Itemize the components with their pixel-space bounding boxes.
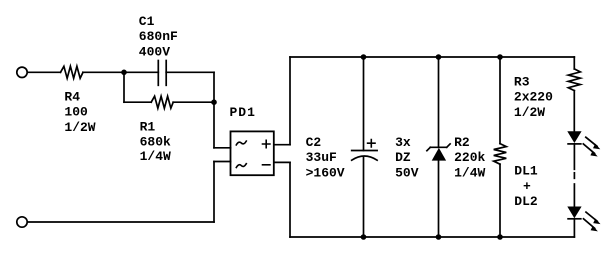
wire	[166, 71, 214, 73]
wire	[499, 57, 501, 144]
bridge PD1 minus symbol	[263, 164, 270, 166]
svg-text:1/2W: 1/2W	[514, 105, 545, 120]
svg-text:R2: R2	[454, 135, 470, 150]
wire	[124, 101, 151, 103]
wire	[573, 184, 575, 207]
node C junction	[361, 54, 367, 60]
svg-text:680k: 680k	[140, 134, 171, 149]
svg-text:C1: C1	[139, 14, 155, 29]
wire	[83, 71, 158, 73]
svg-text:R3: R3	[514, 74, 530, 89]
wire	[363, 157, 365, 237]
wire	[274, 144, 290, 146]
svg-text:R1: R1	[140, 120, 156, 135]
capacitor C2	[352, 140, 377, 161]
wire	[289, 162, 291, 237]
wire	[213, 72, 215, 102]
wire	[438, 57, 440, 147]
wire	[123, 72, 125, 102]
terminal input top	[17, 67, 27, 77]
wire bottom rail	[290, 236, 574, 238]
svg-text:PD1: PD1	[230, 105, 256, 120]
wire	[274, 161, 290, 163]
resistor R2	[494, 144, 507, 165]
bridge rectifier PD1	[231, 131, 274, 175]
svg-text:680nF: 680nF	[139, 29, 178, 44]
wire	[28, 71, 61, 73]
resistor R1	[151, 96, 173, 108]
wire	[573, 91, 575, 132]
wire	[213, 162, 215, 223]
node D junction	[436, 54, 442, 60]
svg-text:>160V: >160V	[306, 166, 345, 181]
node B junction	[211, 99, 217, 105]
svg-text:DL2: DL2	[514, 194, 538, 209]
wire	[213, 102, 215, 148]
wire	[363, 57, 365, 151]
node A junction	[121, 70, 127, 76]
svg-text:400V: 400V	[139, 44, 170, 59]
resistor R3	[568, 69, 580, 91]
bridge PD1 ac symbol bottom	[236, 164, 246, 168]
svg-text:100: 100	[64, 105, 88, 120]
capacitor C1	[158, 61, 166, 86]
resistor R4	[61, 66, 84, 78]
svg-text:1/4W: 1/4W	[140, 149, 171, 164]
wire	[28, 221, 215, 223]
wire dash	[573, 173, 575, 179]
svg-text:1/4W: 1/4W	[454, 166, 485, 181]
svg-text:DZ: DZ	[395, 150, 411, 165]
LED DL2	[567, 207, 581, 219]
LED DL2 light arrows	[584, 212, 601, 231]
svg-text:2x220: 2x220	[514, 90, 553, 105]
svg-text:50V: 50V	[395, 166, 419, 181]
svg-text:220k: 220k	[454, 150, 485, 165]
svg-text:3x: 3x	[395, 135, 411, 150]
node H junction	[497, 234, 503, 240]
svg-text:R4: R4	[64, 89, 80, 104]
zener diode DZ	[427, 144, 450, 161]
wire	[573, 57, 575, 69]
wire	[214, 161, 231, 163]
wire	[499, 164, 501, 237]
wire	[289, 57, 291, 145]
svg-text:C2: C2	[306, 135, 322, 150]
svg-text:33uF: 33uF	[306, 150, 337, 165]
wire	[173, 101, 214, 103]
svg-text:DL1: DL1	[514, 164, 538, 179]
svg-text:+: +	[523, 179, 531, 194]
svg-text:1/2W: 1/2W	[64, 120, 95, 135]
LED DL1 light arrows	[583, 137, 600, 156]
LED DL1	[567, 131, 581, 144]
wire	[438, 161, 440, 237]
node G junction	[436, 234, 442, 240]
wire	[214, 147, 231, 149]
node E junction	[497, 54, 503, 60]
wire	[573, 144, 575, 169]
wire	[573, 219, 575, 237]
bridge PD1 plus symbol	[263, 140, 270, 147]
node F junction	[361, 234, 367, 240]
bridge PD1 ac symbol top	[236, 141, 246, 145]
wire top rail	[290, 56, 574, 58]
terminal input bottom	[17, 217, 27, 227]
